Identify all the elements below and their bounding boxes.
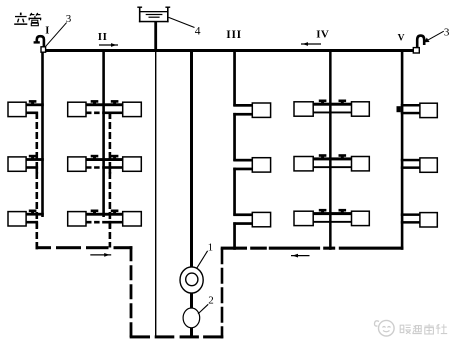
flow arrow on left return main (rightward) <box>90 253 111 257</box>
wire: riser I return elbow <box>36 242 39 249</box>
riser V floor 2 piping <box>401 159 422 169</box>
vent fitting box right <box>413 48 419 53</box>
radiator E1 <box>420 103 437 117</box>
flow arrow on right return main (leftward) <box>291 254 310 258</box>
wire: left return main (dashed) <box>36 246 133 249</box>
valves on riser IV floor 3 <box>319 209 346 214</box>
valves on riser II floor 1 <box>91 100 119 105</box>
svg-text:4: 4 <box>195 25 201 37</box>
label I <box>45 26 49 37</box>
riser V floor 3 piping <box>401 213 422 223</box>
label 4 <box>195 25 201 37</box>
flow arrow near riser II (rightward) <box>99 43 118 47</box>
radiator A2 <box>8 157 26 171</box>
radiator A1 <box>8 102 26 116</box>
wire: right downcomer (dashed) <box>221 248 224 338</box>
riser III floor 2 piping <box>233 159 254 171</box>
radiator B1R <box>123 102 142 116</box>
radiator B2R <box>123 157 142 171</box>
radiator C2 <box>252 158 270 172</box>
valve on radiator A1 <box>29 100 37 105</box>
svg-text:V: V <box>398 33 405 43</box>
radiator A1 piping <box>25 103 44 119</box>
radiator D2L <box>294 157 313 171</box>
svg-text:I: I <box>45 26 49 37</box>
label 3 right <box>444 26 450 38</box>
watermark logo <box>374 320 394 336</box>
valves on riser IV floor 2 <box>319 154 346 159</box>
radiator B3L <box>68 212 86 226</box>
label II <box>98 31 108 43</box>
riser III pipe segments <box>233 49 236 250</box>
radiator E2 <box>420 158 437 172</box>
wire: bottom return main (dashed) <box>130 335 224 338</box>
valve on radiator A2 <box>29 155 37 160</box>
valve on riser V <box>397 106 401 112</box>
vent fitting box left <box>41 47 46 52</box>
air vent at left end of main <box>34 36 44 47</box>
valves on riser IV floor 1 <box>319 100 346 105</box>
fitting 2 <box>183 308 200 328</box>
svg-text:2: 2 <box>208 294 214 306</box>
radiator B3R <box>123 212 142 226</box>
leader line to label 4 <box>169 17 195 27</box>
label IV <box>316 28 329 40</box>
air vent at right end of main <box>417 36 424 49</box>
riser III floor 3 piping <box>233 213 254 225</box>
wire: left downcomer (dashed) <box>130 246 133 338</box>
label 1 <box>208 241 214 253</box>
radiator A2 piping <box>25 158 44 174</box>
radiator D1R <box>352 102 370 116</box>
riser II floor 1 piping <box>85 103 125 119</box>
label V <box>398 33 405 43</box>
svg-text:IV: IV <box>316 28 329 40</box>
riser IV pipe <box>329 49 332 250</box>
radiator C3 <box>252 212 270 226</box>
radiator B1L <box>68 102 86 116</box>
svg-text:1: 1 <box>208 241 214 253</box>
riser III floor 1 piping <box>233 104 254 116</box>
leader line to label 3 left <box>46 23 67 47</box>
valves on riser II floor 2 <box>91 155 119 160</box>
wire: top supply main <box>41 49 413 52</box>
riser II supply pipe <box>102 49 105 217</box>
riser V floor 1 piping <box>401 104 422 114</box>
leader line to label 2 <box>198 304 208 314</box>
riser II floor 3 piping <box>85 213 125 229</box>
watermark text 暖通南社 <box>400 324 447 334</box>
riser IV floor 3 piping <box>312 212 354 223</box>
radiator A3 piping <box>25 213 44 229</box>
radiator D1L <box>294 102 313 116</box>
riser II return pipe (dashed) <box>109 112 112 248</box>
label III <box>226 29 242 41</box>
wire: right return main (dashed) <box>221 247 404 250</box>
radiator E3 <box>420 213 437 227</box>
radiator D2R <box>352 157 370 171</box>
valves on riser II floor 3 <box>91 210 119 215</box>
label 3 left <box>66 13 72 25</box>
wire: boiler/pump vertical main <box>190 51 193 336</box>
radiator D3L <box>294 211 313 225</box>
expansion tank 4 <box>137 7 170 23</box>
radiator A3 <box>8 212 26 226</box>
radiator C1 <box>252 103 270 117</box>
valve on radiator A3 <box>29 210 37 215</box>
label 立管 (riser) <box>14 13 41 26</box>
svg-text:3: 3 <box>444 26 450 38</box>
svg-text:III: III <box>226 29 242 41</box>
circulation pump 1 <box>180 267 203 293</box>
svg-text:II: II <box>98 31 108 43</box>
riser II floor 2 piping <box>85 158 125 174</box>
flow arrow near riser IV (leftward) <box>301 42 321 46</box>
leader arrow to label 3 right <box>424 31 444 42</box>
label 2 <box>208 294 214 306</box>
riser IV floor 2 piping <box>312 157 354 168</box>
riser IV floor 1 piping <box>312 103 354 114</box>
leader line to label 1 <box>197 251 208 268</box>
radiator D3R <box>352 211 370 225</box>
expansion tank connection pipe <box>154 22 157 336</box>
radiator B2L <box>68 157 86 171</box>
riser I return pipe (dashed) <box>35 112 38 248</box>
svg-text:3: 3 <box>66 13 72 25</box>
riser I supply pipe <box>41 49 44 217</box>
riser V pipe <box>401 49 404 250</box>
